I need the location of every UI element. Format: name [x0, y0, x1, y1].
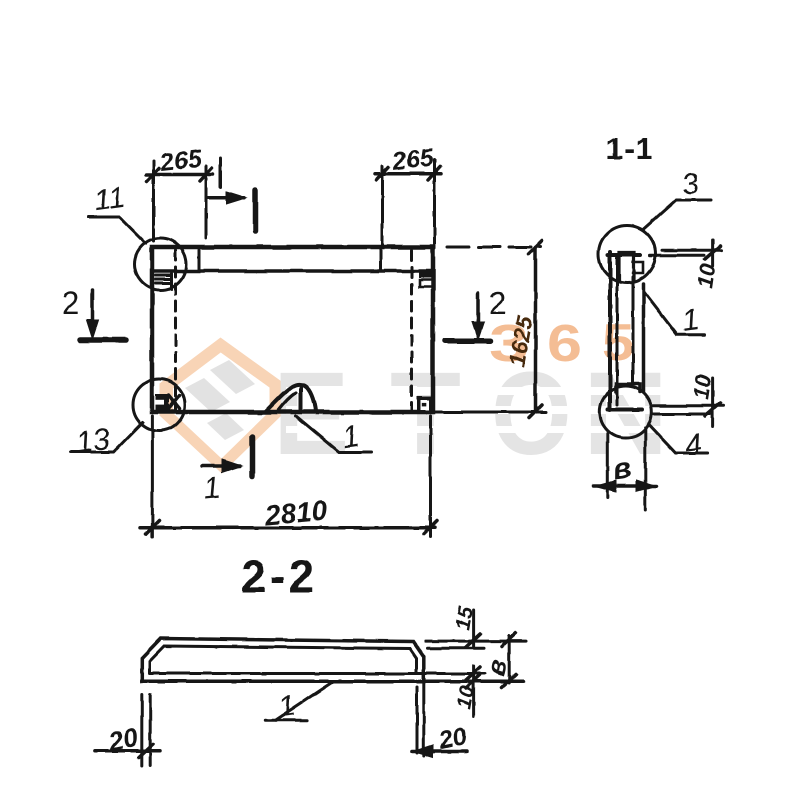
leader 4	[648, 424, 707, 453]
svg-text:1: 1	[277, 689, 298, 724]
leader 11	[88, 217, 146, 244]
dim 20 right line	[412, 750, 467, 754]
dim 265 left slashes	[147, 168, 159, 181]
svg-text:6: 6	[547, 315, 582, 373]
leader 1 section	[644, 292, 704, 335]
svg-text:1: 1	[680, 303, 701, 338]
watermark ETON	[273, 347, 668, 480]
svg-text:265: 265	[158, 145, 204, 177]
svg-text:2-2: 2-2	[241, 551, 318, 602]
section mark 1 bottom	[202, 464, 240, 468]
dim 265 left line	[146, 173, 213, 177]
panel top band line	[152, 269, 433, 273]
lifting loop	[265, 384, 316, 412]
watermark 365	[489, 313, 634, 373]
svg-text:13: 13	[74, 422, 112, 459]
section 1-1 left outer edge	[608, 252, 612, 410]
stray tick	[219, 158, 222, 187]
section mark 1 top	[207, 196, 244, 200]
dim 2810 line	[140, 526, 435, 530]
section 2-2 slab inner	[150, 646, 417, 674]
corner mark top-right	[419, 271, 432, 278]
corner mark bottom-right	[417, 396, 433, 414]
svg-text:10: 10	[688, 372, 716, 400]
dim 15	[472, 610, 475, 647]
dim b2	[508, 636, 511, 683]
dim b section 1-1 extensions	[606, 434, 609, 499]
watermark letter banding	[286, 387, 710, 433]
watermark logo hexagon	[160, 338, 284, 474]
dim 2810 extension lines	[151, 416, 154, 537]
section 1-1 inner right	[632, 277, 635, 383]
dim 265 left extension lines	[152, 161, 155, 241]
band tick left	[198, 250, 201, 271]
svg-text:10: 10	[692, 261, 720, 289]
dim 10 top lines	[662, 249, 721, 252]
corner mark top-left	[156, 274, 172, 290]
dim 1625 bottom extension	[433, 411, 546, 414]
dim 10-2	[472, 666, 475, 716]
leader 3	[643, 200, 711, 230]
dim b line	[594, 484, 657, 488]
band tick right	[379, 250, 382, 271]
callout circle 4	[600, 386, 652, 438]
callout circle 11	[135, 238, 187, 290]
dim 20 left line	[94, 749, 160, 753]
dim 1625 top extension	[447, 246, 541, 249]
dashed line left	[174, 250, 177, 411]
section 2-2 inner bottom line	[150, 672, 485, 675]
svg-text:4: 4	[683, 428, 704, 463]
svg-text:10: 10	[452, 684, 479, 711]
svg-text:1-1: 1-1	[606, 131, 654, 166]
leader 13	[70, 423, 143, 453]
embed top item 3	[619, 253, 634, 282]
top surface extension	[426, 640, 526, 643]
svg-text:2: 2	[62, 285, 80, 321]
dim 20 right arrow	[413, 745, 433, 758]
svg-text:1: 1	[202, 471, 222, 506]
right edge extensions	[422, 681, 425, 756]
dim 265 right line	[375, 172, 441, 176]
section mark 2 left	[91, 290, 95, 322]
section 1-1 right outer edge	[642, 284, 646, 392]
dim 265 right extension lines	[381, 166, 384, 246]
svg-text:2810: 2810	[263, 495, 329, 531]
svg-text:15: 15	[451, 605, 478, 632]
svg-text:20: 20	[105, 721, 141, 757]
panel outline	[152, 247, 433, 412]
svg-text:11: 11	[92, 181, 127, 218]
svg-text:20: 20	[435, 722, 469, 755]
dashed line right	[410, 250, 413, 411]
section 1-1 bottom cap	[608, 408, 642, 412]
callout circle 3	[599, 226, 656, 283]
svg-text:2: 2	[489, 285, 507, 321]
leader 1 section 2-2	[265, 681, 333, 720]
section 2-2 slab bottom	[142, 680, 524, 684]
section 1-1 inner left	[616, 258, 619, 405]
callout circle 13	[133, 379, 185, 431]
embed bottom item 4	[616, 384, 640, 392]
corner mark bottom-left	[156, 394, 170, 411]
loop leader	[296, 416, 371, 452]
svg-text:1: 1	[340, 420, 361, 455]
svg-text:3: 3	[680, 167, 701, 202]
dim 10 bottom lines	[652, 404, 723, 407]
section 1-1 top cap	[608, 253, 640, 257]
section mark 2 right	[476, 293, 480, 324]
dim 1625 line	[534, 247, 538, 412]
section 2-2 slab outer	[142, 639, 424, 682]
left edge extensions	[140, 695, 143, 766]
svg-text:265: 265	[390, 143, 436, 175]
inner top extension	[428, 647, 484, 650]
